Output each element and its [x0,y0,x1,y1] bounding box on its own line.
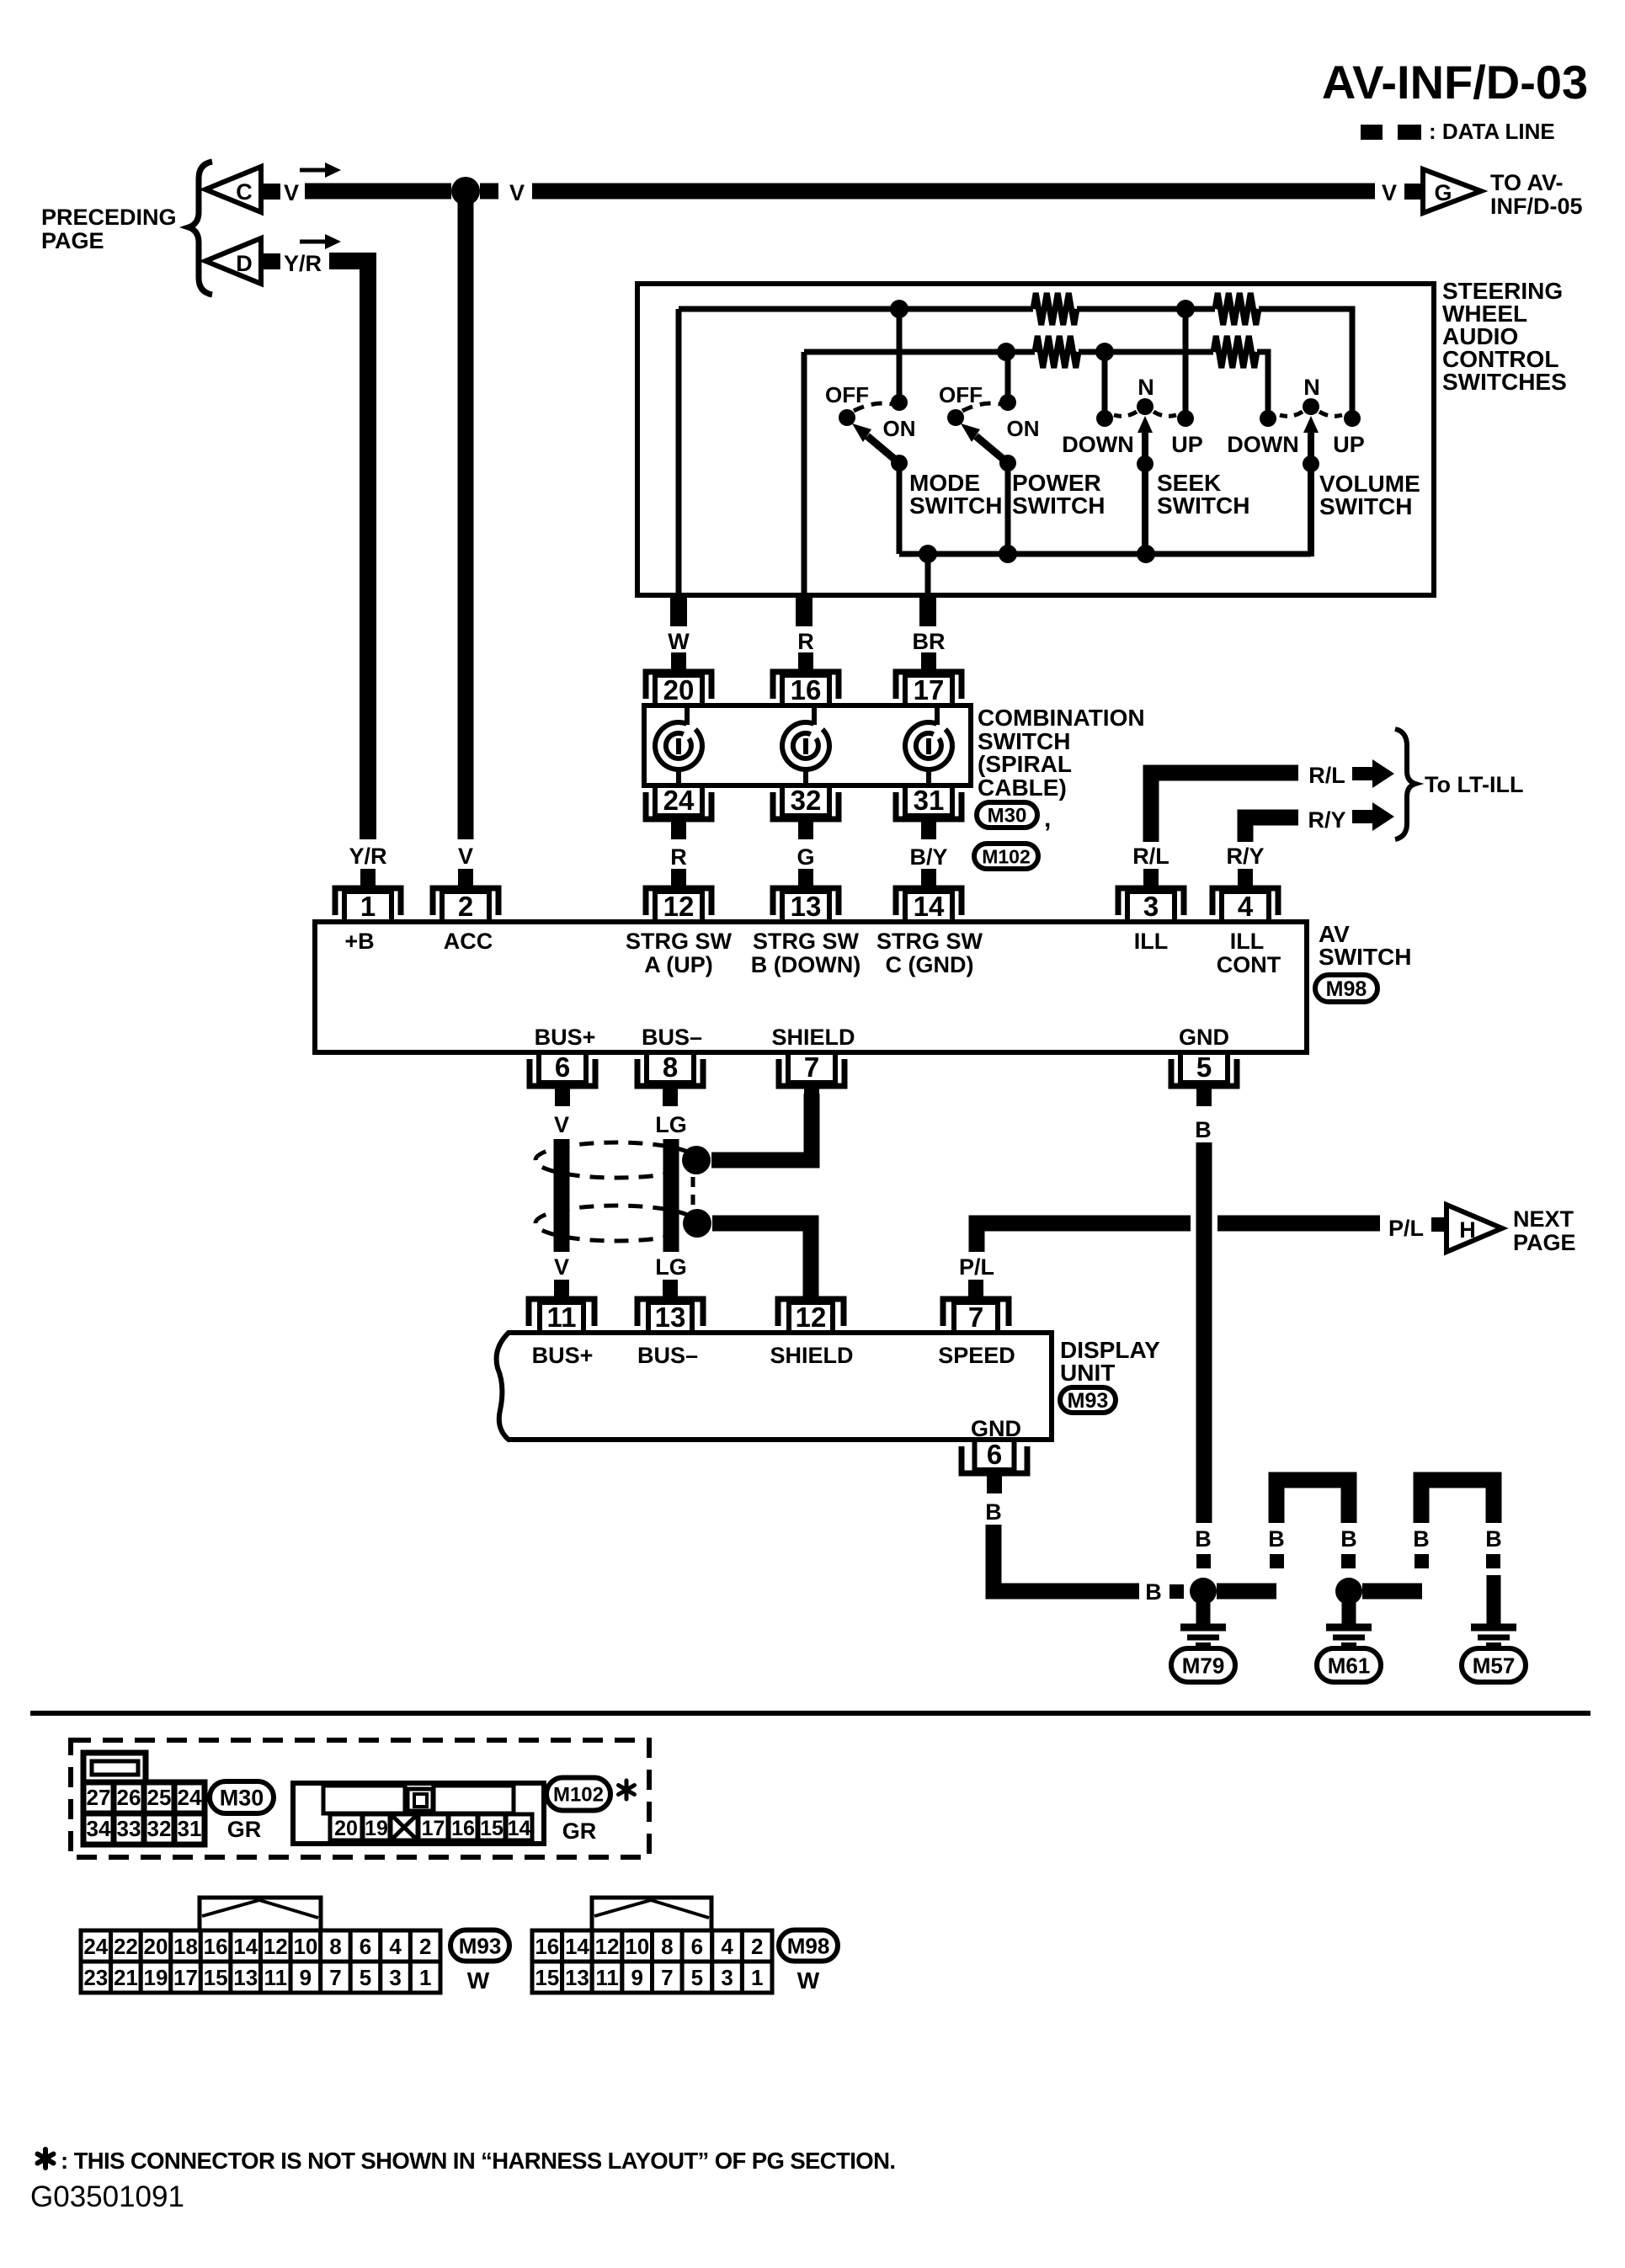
svg-text:V: V [284,180,299,205]
svg-text:ON: ON [883,416,916,441]
pin 11 display unit (BUS+) [529,1280,594,1333]
wire stub above M61 node [1341,1554,1356,1568]
svg-text:8: 8 [329,1934,341,1959]
wire V data line (junction to G) [532,184,1375,200]
svg-text:B: B [1195,1526,1212,1552]
svg-text:V: V [509,180,525,205]
svg-text:7: 7 [661,1965,673,1990]
svg-text:20: 20 [663,674,695,705]
svg-text:M98: M98 [787,1933,830,1958]
node shield junction upper [682,1146,711,1174]
svg-text:31: 31 [914,785,945,816]
connector ref M93 (face) [450,1930,509,1962]
wire B from display to ground bus [994,1525,1139,1591]
svg-text:PRECEDING: PRECEDING [41,205,177,230]
svg-text:13: 13 [655,1302,686,1333]
svg-text:B (DOWN): B (DOWN) [751,952,860,977]
svg-text:To LT-ILL: To LT-ILL [1425,772,1523,797]
svg-text:B: B [1145,1579,1162,1605]
svg-text:10: 10 [625,1934,649,1959]
pin 31 combination switch [896,785,962,839]
svg-text:PAGE: PAGE [41,228,104,253]
svg-text:CABLE): CABLE) [978,775,1067,801]
switch POWER SWITCH [1005,352,1011,402]
brace preceding page [189,162,212,295]
svg-text:GND: GND [1179,1025,1229,1050]
dashed shield drain link [691,1177,695,1210]
svg-text:11: 11 [595,1965,619,1990]
svg-text:R/L: R/L [1132,844,1169,869]
pin 6 display unit (GND) [962,1439,1027,1493]
pin 3 AV switch (ILL) [1118,869,1184,922]
svg-text:R: R [670,844,687,870]
wire BR stub below box [919,595,936,626]
svg-text:5: 5 [1196,1051,1212,1083]
svg-text:G: G [1434,180,1452,205]
svg-text:M102: M102 [553,1784,604,1807]
wire M79 node to ground symbol [1196,1598,1211,1625]
connector ref M98 [1315,975,1377,1002]
svg-text:N: N [1137,375,1154,400]
svg-text:33: 33 [117,1816,141,1841]
svg-text:6: 6 [555,1051,570,1083]
svg-text:R/Y: R/Y [1226,844,1264,869]
ground M57 [1471,1627,1516,1645]
svg-text:24: 24 [83,1934,108,1959]
spiral cable symbol 1 [655,705,702,785]
wire stub above M57 [1486,1554,1500,1568]
svg-text:SHIELD: SHIELD [770,1343,853,1368]
wire ground bus M61 to staple2 [1362,1584,1422,1600]
box AV switch unit [315,922,1307,1052]
svg-text:6: 6 [691,1934,703,1959]
connector ref M102 (face) [546,1778,610,1811]
svg-text:6: 6 [987,1439,1002,1470]
svg-text:M98: M98 [1326,977,1367,1001]
svg-text:4: 4 [1238,891,1254,922]
pin 32 combination switch [773,785,839,839]
wire W inside box [676,309,682,595]
svg-text:BUS+: BUS+ [532,1343,594,1368]
wire stub after junction [480,184,498,200]
pin 6 AV switch (BUS+) [530,1051,595,1106]
node ground junction M61 [1335,1578,1362,1605]
connector face M102 [293,1783,544,1844]
svg-text:8: 8 [661,1934,673,1959]
svg-text:15: 15 [535,1965,559,1990]
spiral cable symbol 2 [782,705,829,785]
wire P/L right segment [1217,1216,1380,1232]
connector C (from preceding page) [205,167,261,212]
spiral cable symbol 3 [905,705,952,785]
wire ground bus M79 to staple1 [1217,1584,1276,1600]
connector ref M30 [977,802,1037,828]
svg-text:: DATA LINE: : DATA LINE [1429,119,1555,144]
svg-text:INF/D-05: INF/D-05 [1490,194,1583,219]
svg-text:UP: UP [1333,432,1365,457]
svg-text:LG: LG [655,1254,687,1280]
svg-text:7: 7 [968,1302,983,1333]
svg-text:M30: M30 [220,1786,264,1811]
node line1-mode junction [890,300,908,318]
svg-text:3: 3 [389,1965,401,1990]
dashed box around M30/M102 connector faces [71,1740,649,1857]
svg-text:(SPIRAL: (SPIRAL [978,751,1072,777]
pin 7 AV switch (SHIELD) [779,1051,844,1106]
svg-text:23: 23 [83,1965,108,1990]
svg-text:R/L: R/L [1308,763,1345,788]
svg-text:20: 20 [144,1934,168,1959]
arrow R/L to LT-ILL [1352,759,1394,788]
svg-text:SWITCH: SWITCH [1319,493,1412,519]
wire SHIELD to pin 12 [712,1223,811,1298]
svg-text:2: 2 [419,1934,431,1959]
svg-text:,: , [1044,805,1051,833]
svg-text:B: B [1485,1526,1502,1552]
connector D (from preceding page) [205,238,261,284]
wire stub above M79 node [1196,1554,1211,1568]
svg-text:P/L: P/L [959,1254,994,1280]
svg-text:4: 4 [721,1934,733,1959]
svg-text:STRG SW: STRG SW [876,929,983,954]
wire line2 (second bus inside switch box) [804,349,1035,355]
svg-text:M61: M61 [1328,1653,1371,1678]
connector face M30 [83,1753,146,1782]
svg-text:G03501091: G03501091 [30,2180,184,2213]
wire stub before G [1404,184,1423,200]
svg-text:27: 27 [87,1785,111,1810]
wire SHIELD from pin 7 [711,1094,812,1160]
svg-text:15: 15 [204,1965,228,1990]
svg-text:13: 13 [565,1965,589,1990]
wire R/Y from pin 4 to LT-ILL [1245,817,1298,842]
svg-text:2: 2 [751,1934,763,1959]
wire line1 (top bus inside switch box) [679,306,1033,312]
brace To LT-ILL [1395,729,1415,839]
wire Y/R down to pin 1 [329,261,368,839]
svg-text:CONT: CONT [1217,952,1281,977]
connector H (to next page) [1447,1205,1502,1252]
resistor R-seek-up (line1 left) [1033,293,1077,325]
svg-text:STRG SW: STRG SW [753,929,860,954]
svg-text:P/L: P/L [1388,1216,1424,1241]
svg-text:20: 20 [334,1817,358,1840]
svg-text:4: 4 [389,1934,402,1959]
arrow over Y/R wire [300,240,327,244]
switch SEEK SWITCH [1102,352,1108,413]
svg-text:B: B [1413,1526,1430,1552]
svg-text:15: 15 [480,1817,503,1840]
pin 13 display unit (BUS-) [637,1280,703,1333]
svg-text:24: 24 [663,785,695,816]
svg-text:32: 32 [791,785,822,816]
connector ref M102 [974,844,1038,869]
svg-text:V: V [1382,180,1397,205]
svg-text:1: 1 [751,1965,763,1990]
resistor R-volume-up (line1 right) [1215,293,1259,325]
wire V (BUS+) down [554,1139,570,1252]
svg-text:PAGE: PAGE [1513,1230,1576,1255]
svg-text:12: 12 [264,1934,288,1959]
svg-text:M30: M30 [988,805,1027,828]
pin 14 AV switch [896,869,962,922]
svg-text:24: 24 [178,1785,202,1810]
svg-text:6: 6 [360,1934,371,1959]
wire stub before H [1431,1217,1448,1232]
svg-text:SPEED: SPEED [938,1343,1015,1368]
svg-text:M57: M57 [1473,1653,1516,1678]
pin 12 display unit (SHIELD) [778,1280,844,1333]
connector G (to AV-INF/D-05) [1423,169,1481,213]
svg-text:BR: BR [913,629,946,654]
svg-text:9: 9 [300,1965,312,1990]
footnote asterisk [38,2149,54,2168]
wire V data line (C to junction) [305,184,451,200]
svg-text:C: C [236,179,253,205]
ground M61 [1326,1627,1372,1645]
svg-text:14: 14 [508,1817,531,1840]
svg-text:M102: M102 [982,845,1031,867]
svg-text:DOWN: DOWN [1062,432,1133,457]
wire P/L from SPEED pin up [977,1223,1191,1252]
svg-text:ILL: ILL [1134,929,1169,954]
svg-text:N: N [1303,375,1320,400]
svg-text:1: 1 [360,891,376,922]
svg-text:ILL: ILL [1230,929,1265,954]
resistor R-volume-down (line2 right) [1213,336,1257,368]
svg-text:R/Y: R/Y [1308,807,1345,833]
svg-text:31: 31 [178,1816,202,1841]
wire V down to pin 2 [458,199,474,839]
svg-text:V: V [554,1112,569,1137]
box display unit [497,1333,1052,1440]
svg-text:H: H [1459,1217,1476,1243]
svg-text:B: B [1340,1526,1357,1552]
wire R/L from pin 3 to LT-ILL [1151,773,1298,842]
node bus-seek junction [1137,545,1155,563]
pin 8 AV switch (BUS-) [637,1051,703,1106]
svg-text:W: W [467,1967,490,1994]
svg-text:1: 1 [419,1965,431,1990]
data line legend [1361,125,1421,140]
svg-text:17: 17 [422,1817,445,1840]
svg-text:B: B [985,1499,1002,1525]
ground M79 [1180,1627,1226,1645]
svg-text:D: D [236,251,253,276]
pin 17 combination switch [896,652,962,705]
svg-text:ACC: ACC [444,929,493,954]
pin 13 AV switch [773,869,839,922]
wire stub staple1 left [1270,1554,1284,1568]
svg-text:9: 9 [631,1965,642,1990]
pin 20 combination switch [646,652,711,705]
svg-text:17: 17 [914,674,945,705]
svg-text:7: 7 [804,1051,819,1083]
svg-text:TO AV-: TO AV- [1490,170,1564,195]
svg-text:13: 13 [791,891,822,922]
svg-text:12: 12 [796,1302,827,1333]
svg-text:V: V [458,844,473,869]
svg-text:OFF: OFF [825,382,869,407]
svg-text:34: 34 [87,1816,111,1841]
svg-text:DOWN: DOWN [1227,432,1298,457]
svg-text:2: 2 [458,891,473,922]
box combination switch (spiral cable) [644,705,971,785]
svg-text:16: 16 [451,1817,475,1840]
switch VOLUME SWITCH [1265,352,1271,413]
svg-text:12: 12 [663,891,695,922]
svg-text:5: 5 [691,1965,703,1990]
connector face M93 [200,1898,321,1930]
svg-text:12: 12 [595,1934,620,1959]
switch MODE SWITCH [897,309,903,402]
svg-text:M93: M93 [1068,1389,1109,1413]
svg-text:11: 11 [264,1965,288,1990]
pin 4 AV switch (ILL CONT) [1212,869,1278,922]
connector ref M30 (face) [210,1781,274,1813]
node bus-power junction [999,545,1017,563]
svg-text:16: 16 [791,674,822,705]
connector ref M98 (face) [779,1930,838,1962]
svg-text:AV-INF/D-03: AV-INF/D-03 [1322,56,1588,109]
wire common bus inside switch box [899,551,1311,557]
pin 1 AV switch (+B) [335,869,401,922]
node line2-seekdown junction [1095,343,1114,361]
svg-text:14: 14 [233,1934,258,1959]
node line1-seekup junction [1176,300,1195,318]
resistor R-seek-down (line2 left) [1035,336,1079,368]
wire stub staple2 left [1415,1554,1429,1568]
svg-text:13: 13 [233,1965,258,1990]
wire W stub below box [670,595,687,626]
svg-text:NEXT: NEXT [1513,1206,1574,1232]
node shield junction lower [683,1209,711,1238]
svg-text:SWITCH: SWITCH [909,492,1002,519]
wire R inside box [802,352,807,595]
svg-text:19: 19 [365,1817,388,1840]
svg-text:SWITCH: SWITCH [1012,492,1105,519]
pin 5 AV switch (GND) [1171,1051,1237,1106]
wire staple bridge 2 [1421,1480,1494,1523]
svg-text:14: 14 [914,891,945,922]
svg-text:17: 17 [173,1965,198,1990]
svg-text:GR: GR [227,1817,262,1842]
svg-text:26: 26 [117,1785,141,1810]
pin 7 display unit (SPEED) [943,1280,1009,1333]
pin 16 combination switch [773,652,839,705]
wire LG (BUS-) down [663,1139,679,1252]
svg-text:BUS+: BUS+ [535,1025,596,1050]
node junction V line [451,177,480,205]
svg-text:7: 7 [329,1965,341,1990]
wire staple bridge 1 [1276,1480,1349,1523]
svg-text:11: 11 [547,1302,577,1333]
wire M61 node to ground symbol [1342,1598,1356,1625]
svg-text:A (UP): A (UP) [644,952,713,977]
svg-text:UNIT: UNIT [1060,1360,1115,1386]
svg-text:UP: UP [1171,432,1203,457]
svg-text:32: 32 [147,1816,172,1841]
wire B down to M57 ground [1487,1575,1501,1625]
svg-text:W: W [797,1967,820,1994]
connector ref M93 [1060,1387,1116,1413]
wire stub before M79 node [1169,1584,1184,1599]
node ground junction M79 [1190,1578,1217,1605]
asterisk M102 [619,1781,635,1799]
svg-text:B: B [1268,1526,1285,1552]
svg-text:STRG SW: STRG SW [626,929,733,954]
svg-text:19: 19 [144,1965,168,1990]
wire R stub below box [796,595,812,626]
svg-text:10: 10 [293,1934,317,1959]
pin 12 AV switch [646,869,711,922]
svg-text:Y/R: Y/R [284,251,322,276]
svg-text:BUS–: BUS– [642,1025,702,1050]
twisted pair shield symbol (dashed ellipses) [535,1142,697,1178]
svg-text:V: V [554,1254,569,1280]
svg-text:22: 22 [114,1934,138,1959]
svg-text:16: 16 [535,1934,559,1959]
arrow R/Y to LT-ILL [1352,802,1394,831]
pin 24 combination switch [646,785,711,839]
svg-text:B: B [1195,1117,1212,1142]
arrow over V wire [300,168,327,173]
svg-text:3: 3 [1143,891,1159,922]
svg-text:ON: ON [1007,416,1040,441]
svg-text:16: 16 [204,1934,228,1959]
svg-text:18: 18 [173,1934,198,1959]
svg-text:R: R [797,629,814,654]
svg-text:8: 8 [663,1051,678,1083]
svg-text:OFF: OFF [939,382,983,407]
svg-text:COMBINATION: COMBINATION [978,705,1145,731]
svg-text:SHIELD: SHIELD [771,1025,855,1050]
svg-text:BUS–: BUS– [637,1343,698,1368]
node line2-power junction [997,343,1015,361]
svg-text:W: W [668,629,690,654]
svg-text:SWITCH: SWITCH [1319,944,1411,970]
separator line [30,1711,1590,1716]
svg-text:5: 5 [360,1965,371,1990]
svg-text:M79: M79 [1182,1653,1225,1678]
svg-text:GR: GR [562,1818,597,1844]
svg-text:G: G [797,844,814,870]
svg-text:LG: LG [655,1112,687,1137]
svg-text:B/Y: B/Y [909,844,947,870]
node bus-BR junction [919,545,937,563]
svg-text:14: 14 [565,1934,589,1959]
wire B from pin 5 down to ground bus [1196,1142,1212,1523]
box steering wheel audio control switches [637,284,1434,595]
svg-text:SWITCH: SWITCH [1157,492,1249,519]
svg-text:C (GND): C (GND) [886,952,974,977]
svg-text:M93: M93 [459,1933,502,1958]
pin 2 AV switch (ACC) [433,869,498,922]
svg-text:Y/R: Y/R [349,844,386,869]
svg-text:3: 3 [721,1965,733,1990]
svg-text:21: 21 [114,1965,138,1990]
svg-text:25: 25 [147,1785,172,1810]
wire BR inside box [925,554,931,595]
svg-text:+B: +B [344,929,374,954]
connector face M98 [592,1898,711,1930]
svg-text:: THIS CONNECTOR IS NOT SHOWN: : THIS CONNECTOR IS NOT SHOWN IN “HARNES… [61,2148,895,2174]
svg-text:SWITCHES: SWITCHES [1442,369,1567,395]
